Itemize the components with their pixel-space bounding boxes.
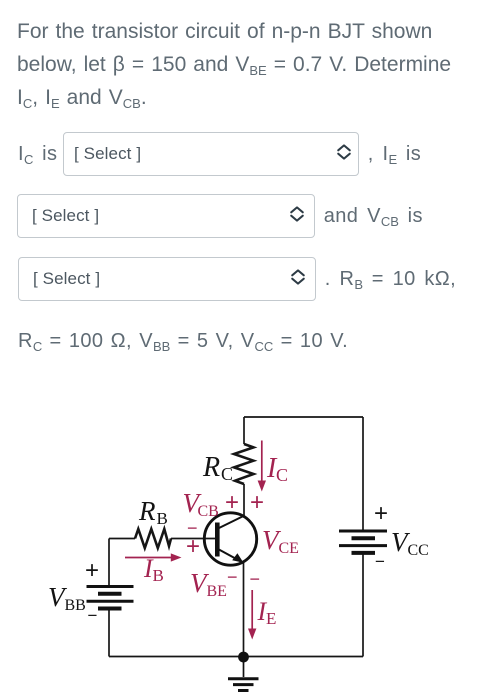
battery VBB plates [87, 587, 134, 609]
svg-text:−: − [227, 567, 238, 587]
ground symbol [228, 657, 259, 691]
svg-text:B: B [157, 509, 168, 528]
wire: emitter vertical [243, 562, 245, 657]
question text [17, 15, 483, 114]
transistor Q1 base bar [215, 523, 220, 557]
transistor Q1 emitter arrowhead [232, 553, 243, 563]
wire: top rail [244, 416, 363, 418]
wire: bottom rail [109, 656, 363, 658]
svg-text:+: + [85, 557, 99, 584]
wire: right rail lower [362, 553, 364, 657]
svg-text:CC: CC [408, 542, 429, 559]
current arrow IB [125, 553, 182, 561]
svg-text:+: + [225, 489, 239, 516]
current arrow IC [258, 441, 266, 492]
transistor Q1 emitter diagonal [218, 549, 241, 562]
svg-text:CE: CE [279, 540, 299, 557]
svg-text:BB: BB [65, 597, 86, 614]
svg-text:B: B [153, 566, 164, 585]
resistor RB [135, 529, 171, 548]
row 1 [18, 132, 421, 176]
svg-text:+: + [250, 489, 264, 516]
wire: left rail upper [108, 539, 110, 586]
row 2 [17, 194, 423, 238]
svg-text:CB: CB [198, 503, 219, 520]
wire: base wire left of RB [109, 538, 135, 540]
svg-text:R: R [202, 452, 220, 483]
svg-text:BE: BE [207, 583, 227, 600]
wire: left rail lower [108, 610, 110, 657]
battery VCC plates [339, 531, 387, 553]
svg-text:+: + [374, 500, 388, 527]
junction node dot [238, 652, 249, 663]
wire: collector vertical below RC [243, 484, 245, 516]
circuit figure [0, 400, 483, 700]
wire: base wire right of RB [171, 538, 215, 540]
svg-text:−: − [88, 606, 98, 625]
values line [18, 330, 348, 352]
svg-text:R: R [138, 496, 156, 526]
resistor RC [234, 444, 254, 484]
svg-text:+: + [186, 533, 200, 560]
row 3 [18, 257, 456, 301]
transistor Q1 collector diagonal [218, 516, 245, 529]
svg-text:−: − [250, 569, 261, 589]
transistor Q1 circle [204, 513, 256, 565]
svg-text:C: C [276, 465, 288, 485]
svg-text:−: − [375, 552, 385, 571]
current arrow IE [248, 590, 256, 640]
svg-text:E: E [266, 609, 276, 628]
wire: collector vertical above RC [243, 417, 245, 444]
wire: right rail upper [362, 417, 364, 530]
svg-text:C: C [221, 464, 233, 484]
